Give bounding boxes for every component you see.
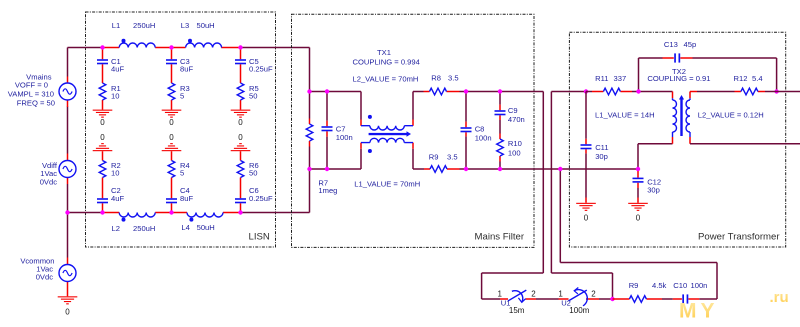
- svg-text:0.25uF: 0.25uF: [249, 64, 273, 73]
- svg-text:0: 0: [636, 214, 641, 223]
- column 1 top: C1 R1: [102, 48, 104, 110]
- column 2 top: C3 R3: [171, 48, 173, 110]
- capacitor C4: [166, 198, 177, 203]
- svg-text:C9: C9: [508, 106, 518, 115]
- wire filter bottom rail: [310, 149, 639, 169]
- wire between switches: [536, 298, 559, 300]
- svg-text:L2_VALUE = 70mH: L2_VALUE = 70mH: [353, 75, 419, 84]
- node C7 bottom: [325, 167, 329, 171]
- svg-text:470n: 470n: [508, 115, 525, 124]
- capacitor C8: [465, 92, 467, 170]
- node R10 bottom: [498, 167, 502, 171]
- capacitor C9: [499, 92, 501, 134]
- source Vdiff: [67, 154, 69, 185]
- svg-text:100n: 100n: [475, 134, 492, 143]
- svg-text:Mains Filter: Mains Filter: [475, 232, 525, 243]
- svg-text:FREQ = 50: FREQ = 50: [17, 98, 55, 107]
- resistor R7: [309, 92, 311, 170]
- svg-text:2: 2: [591, 289, 596, 298]
- wire V3 from neutral rail down to snubber return: [560, 169, 717, 299]
- resistor R2: [99, 161, 106, 178]
- LISN box: [86, 12, 276, 247]
- svg-text:4.5k: 4.5k: [652, 281, 667, 290]
- svg-text:0: 0: [584, 214, 589, 223]
- svg-text:5: 5: [180, 169, 184, 178]
- node col3 top: [238, 45, 242, 49]
- svg-text:0: 0: [65, 308, 70, 317]
- node C8 top: [464, 89, 468, 93]
- ground col2 top: [162, 110, 182, 118]
- svg-text:2: 2: [531, 289, 536, 298]
- resistor R6: [237, 161, 244, 178]
- node C13 left: [636, 89, 640, 93]
- svg-text:R11: R11: [595, 74, 608, 83]
- svg-text:L2: L2: [112, 224, 120, 233]
- svg-text:R12: R12: [734, 74, 748, 83]
- inductor L4: [187, 213, 223, 218]
- wire secondary top out: [697, 91, 800, 93]
- capacitor C2: [97, 198, 108, 203]
- svg-text:100n: 100n: [336, 133, 353, 142]
- inductor L2: [119, 213, 155, 218]
- svg-text:VAMPL = 310: VAMPL = 310: [8, 89, 54, 98]
- svg-text:C10: C10: [673, 281, 687, 290]
- node R7 top: [307, 89, 311, 93]
- resistor R4: [168, 161, 175, 178]
- Power Transformer box: [569, 32, 785, 247]
- svg-text:30p: 30p: [595, 152, 608, 161]
- ground col3 top: [231, 110, 251, 118]
- svg-text:R9: R9: [629, 281, 639, 290]
- svg-text:R9: R9: [429, 152, 439, 161]
- capacitor C1: [97, 59, 108, 64]
- svg-text:0: 0: [238, 133, 243, 142]
- node col2 top: [169, 45, 173, 49]
- inductor L1: [119, 43, 155, 48]
- svg-text:L3: L3: [181, 21, 189, 30]
- node C9 top: [498, 89, 502, 93]
- source Vmains: [67, 48, 69, 154]
- svg-text:50: 50: [249, 92, 257, 101]
- svg-text:100n: 100n: [691, 281, 708, 290]
- capacitor C6: [235, 198, 246, 203]
- node C13 right: [774, 89, 778, 93]
- svg-text:1: 1: [497, 289, 502, 298]
- svg-text:MY: MY: [679, 300, 719, 323]
- svg-text:0: 0: [169, 118, 174, 127]
- node col3 bottom: [238, 210, 242, 214]
- wire bottom line red: [103, 212, 241, 214]
- svg-text:100: 100: [508, 148, 521, 157]
- wire secondary bottom out: [690, 143, 800, 145]
- wire V2 feed to transformer primary: [551, 92, 612, 300]
- node col2 bottom: [169, 210, 173, 214]
- wire filter input verticals: [309, 48, 311, 213]
- wire switch row left: [482, 298, 500, 300]
- svg-text:0.25uF: 0.25uF: [249, 194, 273, 203]
- svg-text:10: 10: [111, 169, 119, 178]
- svg-text:5: 5: [180, 92, 184, 101]
- resistor R8: [424, 91, 460, 93]
- svg-text:3.5: 3.5: [448, 74, 459, 83]
- svg-text:R10: R10: [508, 139, 522, 148]
- svg-text:R8: R8: [431, 74, 441, 83]
- svg-text:LISN: LISN: [249, 232, 270, 243]
- svg-text:0: 0: [100, 133, 105, 142]
- svg-text:5.4: 5.4: [752, 74, 763, 83]
- wire top line red: [103, 47, 241, 49]
- capacitor C5: [235, 59, 246, 64]
- svg-text:C13: C13: [664, 40, 678, 49]
- node C12 top: [636, 167, 640, 171]
- svg-text:250uH: 250uH: [133, 21, 155, 30]
- svg-text:250uH: 250uH: [133, 224, 155, 233]
- svg-text:15m: 15m: [509, 306, 525, 315]
- svg-text:0Vdc: 0Vdc: [36, 273, 54, 282]
- svg-text:C8: C8: [475, 125, 485, 134]
- svg-text:0: 0: [100, 118, 105, 127]
- Mains Filter box: [292, 14, 535, 247]
- svg-text:45p: 45p: [684, 40, 697, 49]
- svg-text:30p: 30p: [647, 186, 660, 195]
- node primary top: [584, 89, 588, 93]
- svg-text:337: 337: [614, 74, 627, 83]
- svg-text:TX1: TX1: [377, 48, 391, 57]
- wire top line dark: [68, 47, 310, 49]
- transformer TX2: [638, 92, 673, 170]
- svg-text:4uF: 4uF: [111, 194, 124, 203]
- node col1 bottom: [100, 210, 104, 214]
- svg-text:Power Transformer: Power Transformer: [698, 232, 780, 243]
- resistor R11: [586, 91, 665, 93]
- svg-text:0: 0: [238, 118, 243, 127]
- node junction at Vdiff bottom: [65, 210, 69, 214]
- node X switch junction: [610, 297, 614, 301]
- ground col1 top: [93, 110, 113, 118]
- capacitor C3: [166, 59, 177, 64]
- wire V1 from filter L output down to switch U1: [482, 92, 544, 300]
- svg-text:1meg: 1meg: [318, 186, 337, 195]
- switch U2: [559, 298, 600, 300]
- svg-text:.ru: .ru: [770, 289, 789, 306]
- svg-text:100m: 100m: [569, 306, 589, 315]
- svg-text:L1_VALUE = 70mH: L1_VALUE = 70mH: [354, 180, 420, 189]
- capacitor C7: [326, 92, 328, 170]
- capacitor C12: [637, 169, 639, 188]
- ground under C12: [628, 203, 648, 211]
- svg-text:L4: L4: [181, 223, 189, 232]
- column 3 top: C5 R5: [240, 48, 242, 110]
- capacitor C10: [662, 298, 673, 300]
- wire filter top rail: [310, 92, 544, 120]
- transformer TX1 (common mode choke): [360, 92, 362, 170]
- resistor R10: [499, 134, 501, 162]
- svg-text:50: 50: [249, 169, 257, 178]
- inductor L3: [186, 43, 222, 48]
- resistor R1: [99, 83, 106, 100]
- svg-text:50uH: 50uH: [197, 21, 215, 30]
- resistor R9 filter: [424, 168, 460, 170]
- svg-text:0Vdc: 0Vdc: [40, 177, 58, 186]
- svg-text:4uF: 4uF: [111, 64, 124, 73]
- resistor R5: [237, 83, 244, 100]
- node neutral rail V3: [558, 167, 562, 171]
- capacitor C11: [585, 92, 587, 198]
- node col1 top: [100, 45, 104, 49]
- node C7 top: [325, 89, 329, 93]
- node C8 bottom: [464, 167, 468, 171]
- wire to node X: [599, 298, 613, 300]
- switch U1: [500, 298, 536, 300]
- node R7 bottom: [307, 167, 311, 171]
- wire bottom line dark: [68, 212, 310, 214]
- svg-text:8uF: 8uF: [180, 194, 193, 203]
- resistor R12: [690, 91, 765, 93]
- svg-text:C11: C11: [595, 143, 608, 152]
- svg-text:50uH: 50uH: [197, 223, 215, 232]
- source Vcommon: [67, 213, 69, 258]
- resistor R3: [168, 83, 175, 100]
- svg-text:COUPLING = 0.91: COUPLING = 0.91: [647, 74, 710, 83]
- capacitor C13 top branch: [639, 58, 777, 92]
- svg-text:3.5: 3.5: [447, 152, 458, 161]
- svg-text:L1: L1: [112, 21, 120, 30]
- svg-text:COUPLING = 0.994: COUPLING = 0.994: [353, 58, 420, 67]
- resistor R9 snubber: [613, 298, 663, 300]
- svg-text:10: 10: [111, 92, 119, 101]
- svg-text:L2_VALUE = 0.12H: L2_VALUE = 0.12H: [698, 110, 764, 119]
- ground under C11: [576, 203, 596, 211]
- ground under Vcommon: [58, 296, 78, 304]
- svg-text:VOFF = 0: VOFF = 0: [15, 81, 48, 90]
- svg-text:1: 1: [558, 289, 563, 298]
- svg-text:0: 0: [169, 133, 174, 142]
- svg-text:8uF: 8uF: [180, 64, 193, 73]
- svg-text:L1_VALUE = 14H: L1_VALUE = 14H: [595, 110, 655, 119]
